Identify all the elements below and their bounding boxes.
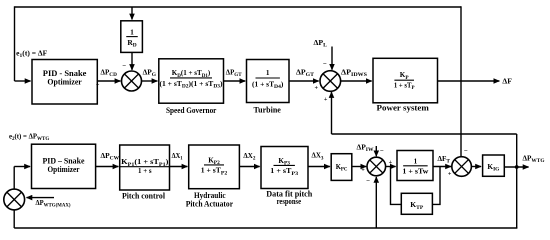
svg-text:+: + (361, 167, 365, 174)
svg-text:−: − (122, 63, 126, 70)
svg-text:+: + (448, 170, 452, 177)
svg-text:Pitch control: Pitch control (122, 191, 166, 200)
svg-text:−: − (366, 178, 370, 185)
svg-text:+: + (96, 81, 100, 88)
svg-text:1 + s: 1 + s (138, 168, 152, 175)
svg-text:Optimizer: Optimizer (47, 77, 82, 86)
svg-text:1: 1 (266, 69, 270, 77)
svg-text:Speed Governor: Speed Governor (166, 105, 217, 115)
svg-text:Power system: Power system (377, 103, 430, 113)
svg-text:Optimizer: Optimizer (48, 165, 80, 174)
svg-text:Turbine: Turbine (254, 105, 281, 115)
svg-text:−: − (380, 148, 384, 155)
svg-text:1: 1 (130, 27, 134, 36)
svg-text:+: + (324, 96, 328, 103)
svg-text:−: − (464, 148, 468, 155)
svg-text:−: − (323, 60, 327, 67)
svg-text:1: 1 (414, 158, 418, 166)
svg-text:response: response (277, 197, 302, 206)
svg-text:1 + sTw: 1 + sTw (402, 168, 429, 176)
svg-text:+: + (315, 85, 319, 92)
svg-text:+: + (389, 159, 393, 166)
svg-text:ΔF: ΔF (502, 78, 512, 86)
svg-text:Pitch Actuator: Pitch Actuator (186, 199, 234, 208)
